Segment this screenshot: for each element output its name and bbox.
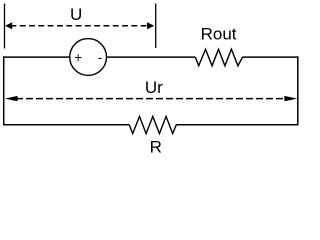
voltage source U1 — [70, 39, 107, 76]
tick mark left of U dimension — [4, 4, 6, 49]
svg-text:U: U — [70, 5, 82, 24]
dimension arrow U (dashed double-headed) — [5, 22, 154, 29]
wire top-middle segment — [106, 56, 195, 58]
wire bottom-left segment — [3, 124, 129, 126]
svg-text:Rout: Rout — [201, 24, 237, 43]
wire left side of loop — [3, 56, 5, 125]
wire bottom-right segment — [176, 124, 298, 126]
wire right side of loop — [297, 56, 299, 125]
svg-text:-: - — [98, 50, 103, 65]
resistor Rout zigzag — [195, 49, 242, 66]
svg-text:+: + — [74, 50, 82, 65]
tick mark right of U dimension — [155, 4, 157, 49]
wire top-left segment — [3, 56, 70, 58]
dimension arrow Ur (dashed double-headed) — [5, 96, 297, 101]
wire top-right segment — [243, 56, 299, 58]
svg-text:R: R — [150, 138, 162, 157]
resistor R zigzag — [129, 116, 176, 133]
svg-text:Ur: Ur — [145, 78, 163, 97]
